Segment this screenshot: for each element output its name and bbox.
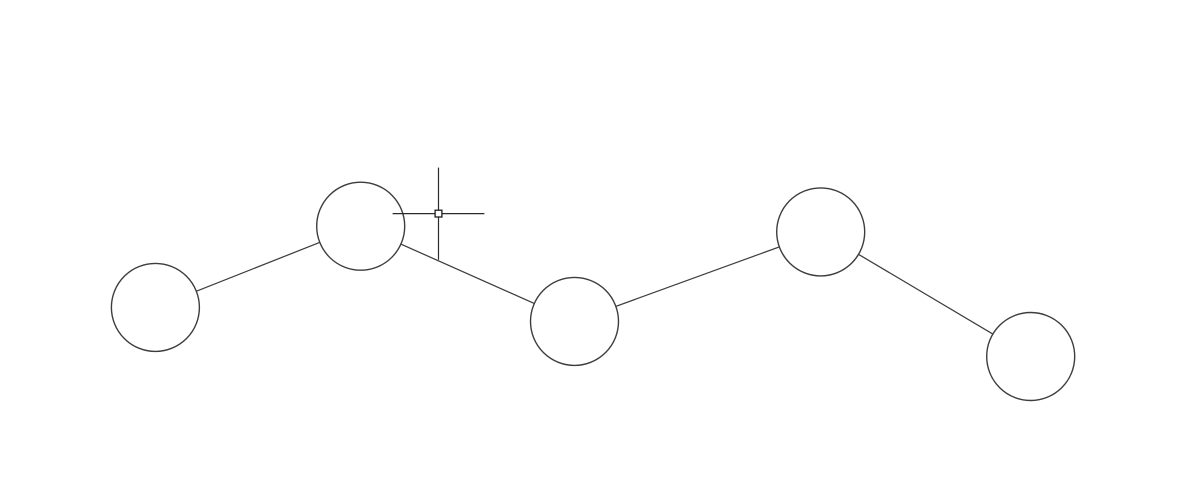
wire edge N2-N3 <box>361 226 575 321</box>
node N5 <box>987 313 1075 401</box>
node N1 <box>111 263 199 351</box>
crosshair cursor horizontal arm <box>393 213 485 215</box>
node N2 <box>317 182 405 270</box>
crosshair cursor vertical arm <box>438 168 440 260</box>
crosshair pickbox <box>435 210 442 217</box>
wire edge N4-N5 <box>821 232 1031 357</box>
node N4 <box>777 188 865 276</box>
wire edge N1-N2 <box>155 226 360 307</box>
node N3 <box>531 277 619 365</box>
wire edge N3-N4 <box>575 232 821 322</box>
